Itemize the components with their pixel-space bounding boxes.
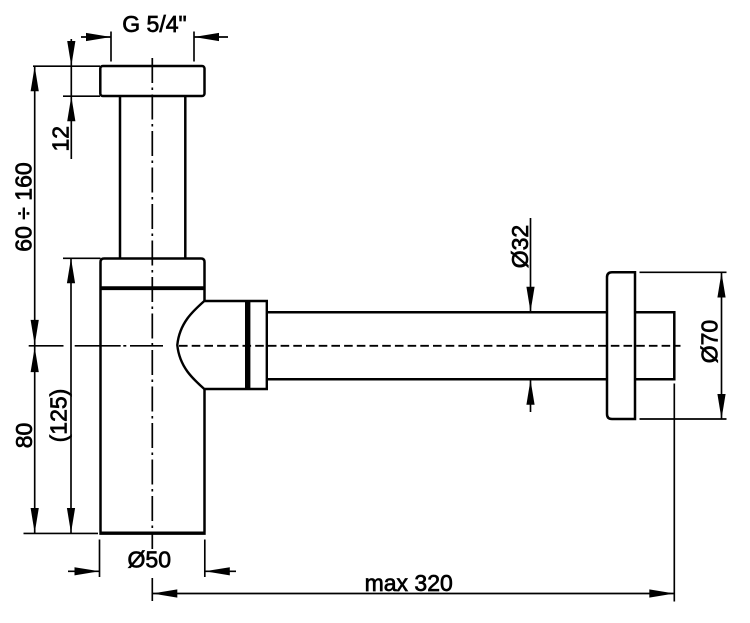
svg-text:60 ÷ 160: 60 ÷ 160 [11,162,37,251]
svg-text:max 320: max 320 [365,570,453,596]
svg-text:Ø50: Ø50 [128,547,171,573]
svg-text:Ø70: Ø70 [697,320,723,363]
svg-text:G 5/4": G 5/4" [122,11,186,37]
svg-text:80: 80 [11,423,37,449]
svg-text:12: 12 [48,126,74,152]
svg-text:(125): (125) [46,389,72,443]
svg-text:Ø32: Ø32 [507,225,533,268]
